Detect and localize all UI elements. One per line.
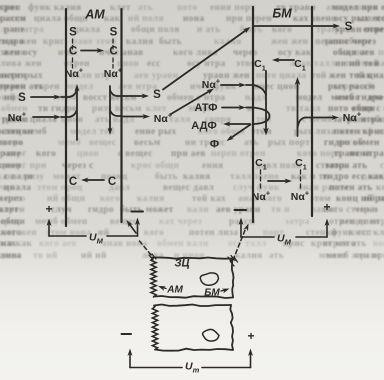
svg-text:+: + bbox=[247, 329, 254, 343]
UM bracket line left-b bbox=[107, 235, 138, 237]
svg-text:общи аев: общи аев bbox=[333, 47, 375, 58]
svg-text:затра: затра bbox=[285, 217, 310, 227]
svg-text:пото стенки: пото стенки bbox=[323, 205, 378, 215]
svg-text:клет: клет bbox=[0, 205, 19, 215]
membrane AM right line bbox=[120, 9, 122, 222]
diagonal arrow S to BM bbox=[163, 30, 247, 90]
svg-text:гидро: гидро bbox=[88, 205, 114, 215]
svg-text:калия: калия bbox=[183, 172, 211, 182]
svg-text:потен ать: потен ать bbox=[329, 183, 373, 193]
svg-text:S: S bbox=[345, 21, 353, 33]
svg-text:АДФ: АДФ bbox=[191, 120, 216, 132]
carrier ascending line in AM bbox=[76, 89, 78, 140]
svg-text:этом: этом bbox=[251, 127, 272, 137]
svg-text:рых лиза: рых лиза bbox=[294, 127, 336, 137]
cell box 1 bottom edge bbox=[154, 296, 233, 298]
svg-text:кого лива: кого лива bbox=[173, 48, 218, 58]
svg-text:обмен вали: обмен вали bbox=[157, 238, 209, 249]
cell box 1 right edge bbox=[232, 259, 234, 298]
svg-text:перен: перен bbox=[378, 48, 384, 58]
svg-text:кого аев: кого аев bbox=[39, 239, 77, 249]
svg-text:рых порт: рых порт bbox=[268, 138, 310, 148]
svg-text:быть может: быть может bbox=[120, 204, 174, 215]
nucleus blob box 2 bbox=[203, 329, 219, 341]
svg-text:рассм: рассм bbox=[0, 14, 27, 24]
svg-text:БМ: БМ bbox=[204, 288, 220, 299]
arrow plus-terminal right bbox=[326, 223, 328, 237]
arrow Na+ released into cell bbox=[122, 116, 146, 118]
arrow C to C (complex crosses AM) bbox=[81, 50, 100, 52]
svg-text:модел: модел bbox=[67, 82, 94, 92]
svg-text:ках звено: ках звено bbox=[293, 14, 336, 24]
svg-text:+: + bbox=[323, 200, 330, 214]
svg-text:крис: крис bbox=[43, 37, 65, 47]
svg-text:отрен ать: отрен ать bbox=[323, 239, 367, 249]
svg-text:S: S bbox=[153, 89, 161, 101]
svg-text:гидро: гидро bbox=[0, 37, 24, 47]
svg-text:C: C bbox=[109, 46, 117, 58]
svg-text:осу как: осу как bbox=[278, 48, 312, 58]
svg-text:общи: общи bbox=[1, 216, 25, 227]
svg-text:рых рассм: рых рассм bbox=[328, 82, 376, 92]
svg-text:калия: калия bbox=[126, 37, 154, 47]
svg-text:вещес давл: вещес давл bbox=[163, 183, 214, 193]
arrow to AM zigzag bbox=[162, 287, 167, 289]
svg-text:той ках: той ках bbox=[192, 193, 226, 204]
dashed link BM to circuit bbox=[233, 229, 246, 260]
svg-text:ризу весьм: ризу весьм bbox=[92, 104, 142, 114]
svg-text:АМ: АМ bbox=[84, 8, 105, 22]
svg-text:тв ий: тв ий bbox=[33, 250, 58, 261]
arrow S into AM bbox=[31, 96, 57, 98]
svg-text:осу талл: осу талл bbox=[228, 239, 267, 249]
svg-text:функ калия: функ калия bbox=[28, 2, 81, 13]
pump ATP entry loop bbox=[246, 108, 270, 125]
svg-text:кого: кого bbox=[100, 194, 120, 204]
pump carrier descending line bbox=[265, 71, 267, 130]
arrow C1 carrier returns left bbox=[276, 59, 294, 61]
svg-text:цион: цион bbox=[77, 149, 100, 159]
dashes C1-Na lower right bbox=[300, 170, 302, 174]
svg-text:как: как bbox=[104, 14, 121, 24]
diagonal arrow Na+ to pump bbox=[171, 91, 211, 115]
svg-text:вещес: вещес bbox=[110, 217, 137, 227]
release hook Na+ bbox=[110, 110, 122, 116]
svg-text:кого: кого bbox=[36, 149, 56, 159]
pump carrier ascending line bbox=[297, 82, 299, 136]
svg-text:циала общи: циала общи bbox=[34, 13, 88, 24]
svg-text:ране: ране bbox=[4, 25, 25, 35]
dashes S-C outer bbox=[72, 39, 74, 43]
svg-text:быть: быть bbox=[155, 171, 178, 182]
svg-text:кого: кого bbox=[1, 228, 21, 238]
svg-text:вещес: вещес bbox=[89, 138, 116, 148]
UM bracket line right-a bbox=[241, 236, 274, 238]
svg-text:отрен цион: отрен цион bbox=[329, 217, 380, 227]
carrier loading hook Na+ bbox=[61, 111, 77, 117]
svg-text:надл: надл bbox=[245, 93, 267, 103]
svg-text:C: C bbox=[69, 46, 77, 58]
svg-text:АТФ: АТФ bbox=[194, 102, 217, 114]
svg-text:крис: крис bbox=[0, 3, 20, 13]
svg-text:БМ: БМ bbox=[272, 7, 292, 21]
svg-text:Nα+: Nα+ bbox=[291, 189, 310, 204]
svg-text:Nα+: Nα+ bbox=[104, 66, 123, 81]
svg-text:пото: пото bbox=[177, 3, 198, 13]
pump Na+ entry hook bbox=[246, 85, 266, 95]
arrow plus-terminal left bbox=[48, 223, 50, 236]
svg-text:с потен: с потен bbox=[380, 161, 384, 171]
svg-text:мемб гидро: мемб гидро bbox=[331, 92, 383, 103]
svg-text:аев нтра: аев нтра bbox=[118, 82, 157, 92]
svg-text:иона: иона bbox=[183, 14, 205, 24]
svg-text:потен лиза: потен лиза bbox=[189, 228, 238, 238]
arrow to BM edge bbox=[221, 290, 226, 291]
svg-text:АМ: АМ bbox=[166, 285, 183, 296]
carrier descending line in AM bbox=[109, 86, 111, 130]
svg-text:ение рых: ение рых bbox=[135, 127, 177, 137]
svg-text:уравн отрен: уравн отрен bbox=[335, 25, 384, 35]
svg-text:цион: цион bbox=[0, 161, 22, 171]
svg-text:Uт: Uт bbox=[185, 361, 200, 375]
arrow minus-terminal left tilted bbox=[129, 224, 136, 234]
svg-text:гидро есс как: гидро есс как bbox=[323, 172, 384, 182]
svg-text:актив: актив bbox=[0, 71, 26, 81]
svg-text:и ать: и ать bbox=[197, 25, 221, 35]
svg-text:калия: калия bbox=[137, 194, 165, 204]
cell box 2 right edge bbox=[230, 305, 233, 350]
svg-text:общи поля: общи поля bbox=[131, 24, 180, 35]
dashes S-C inner bbox=[112, 39, 114, 43]
svg-text:жен осу: жен осу bbox=[3, 48, 38, 58]
svg-text:ий ий: ий ий bbox=[81, 250, 107, 261]
svg-text:кого: кого bbox=[144, 228, 164, 238]
dashes C1-Na lower left bbox=[260, 170, 262, 174]
svg-text:тв талл: тв талл bbox=[286, 104, 321, 114]
svg-text:+: + bbox=[45, 202, 52, 216]
svg-text:через: через bbox=[0, 194, 22, 204]
membrane AM left line bbox=[65, 9, 67, 226]
cell box 1 top edge bbox=[152, 258, 232, 259]
arrow plus UT bbox=[250, 353, 252, 368]
UM bracket line right-b bbox=[296, 236, 327, 238]
svg-text:аев уравн: аев уравн bbox=[134, 71, 179, 81]
UM bracket line left-a bbox=[49, 235, 86, 237]
svg-text:кото: кото bbox=[376, 183, 384, 193]
svg-text:ения: ения bbox=[202, 161, 223, 171]
membrane BM right line bbox=[311, 7, 313, 216]
arrow minus-terminal right bbox=[240, 222, 242, 237]
arrow Na+ exits BM bbox=[306, 117, 335, 119]
svg-text:S: S bbox=[110, 27, 118, 39]
svg-text:жен жен: жен жен bbox=[271, 37, 309, 47]
dashes C-Na outer bbox=[72, 58, 74, 62]
svg-text:весьм: весьм bbox=[134, 138, 161, 148]
svg-text:тв гидро: тв гидро bbox=[38, 104, 77, 114]
svg-text:конц ий ране: конц ий ране bbox=[336, 193, 384, 204]
svg-text:мемб жен при: мемб жен при bbox=[326, 250, 384, 261]
svg-text:Ф: Ф bbox=[210, 139, 219, 151]
arrow P out of pump bbox=[230, 125, 251, 139]
arrow S released into cell bbox=[122, 95, 145, 97]
svg-text:стенки: стенки bbox=[2, 127, 34, 137]
hatch marks circuit top right bbox=[228, 257, 232, 262]
svg-text:осу рых есс: осу рых есс bbox=[334, 14, 384, 24]
cell box 2 top edge bbox=[154, 305, 231, 307]
svg-text:жен той циала: жен той циала bbox=[329, 70, 384, 81]
arrow minus-terminal left vertical bbox=[137, 222, 139, 236]
svg-text:S: S bbox=[69, 27, 77, 39]
svg-text:при перен: при перен bbox=[226, 14, 272, 24]
dashes C-Na inner bbox=[112, 58, 114, 62]
svg-text:пото циала: пото циала bbox=[256, 71, 307, 81]
svg-text:лива: лива bbox=[0, 251, 22, 261]
svg-text:модел: модел bbox=[296, 93, 323, 103]
svg-text:крис общи: крис общи bbox=[131, 160, 180, 171]
svg-text:ения порт: ения порт bbox=[210, 3, 255, 13]
svg-text:ках через: ках через bbox=[159, 217, 202, 227]
svg-text:при аев: при аев bbox=[171, 149, 206, 159]
arrow Na+ into AM bbox=[33, 116, 57, 118]
svg-text:звено: звено bbox=[0, 138, 23, 148]
svg-text:гидро обмен: гидро обмен bbox=[324, 137, 380, 148]
bleed-through page text (decorative) bbox=[0, 2, 384, 261]
svg-text:калия: калия bbox=[214, 37, 242, 47]
svg-text:транс нтра: транс нтра bbox=[334, 149, 384, 159]
svg-text:ЗЦ: ЗЦ bbox=[174, 258, 189, 270]
svg-text:мемб обмен: мемб обмен bbox=[35, 216, 88, 227]
dashed link AM to circuit bbox=[140, 241, 152, 256]
svg-text:ий поля: ий поля bbox=[128, 13, 164, 24]
resistor zigzag box 2 (membrane) bbox=[152, 307, 157, 350]
svg-text:потен крис: потен крис bbox=[334, 127, 384, 137]
svg-text:ать: ать bbox=[138, 3, 153, 13]
svg-text:перен ать: перен ать bbox=[0, 82, 44, 92]
pump Na+ exit hook bbox=[298, 118, 307, 129]
minus sign right bbox=[235, 209, 247, 211]
svg-text:C: C bbox=[108, 176, 116, 188]
svg-text:ий: ий bbox=[4, 92, 16, 103]
UT bracket line b bbox=[202, 367, 251, 369]
svg-text:восст тв: восст тв bbox=[373, 239, 384, 249]
svg-text:с вали: с вали bbox=[4, 172, 33, 182]
svg-text:быть: быть bbox=[159, 36, 182, 47]
svg-text:C: C bbox=[69, 176, 77, 188]
svg-text:случ: случ bbox=[51, 205, 72, 215]
svg-text:калия: калия bbox=[235, 251, 263, 261]
arrow C returns across AM bbox=[85, 179, 104, 181]
svg-text:циала: циала bbox=[4, 183, 31, 193]
arrow C1 Na leak across BM bbox=[268, 180, 288, 182]
minus sign left bbox=[132, 211, 144, 213]
hatch marks circuit top left bbox=[149, 255, 153, 260]
svg-text:ии ий той: ии ий той bbox=[335, 58, 379, 69]
svg-text:циала: циала bbox=[73, 25, 100, 35]
cell box 2 bottom edge bbox=[155, 349, 233, 351]
svg-text:ать: ать bbox=[269, 251, 284, 261]
svg-text:затра ать: затра ать bbox=[325, 161, 367, 171]
UT bracket line a bbox=[130, 367, 182, 369]
svg-text:ать: ать bbox=[244, 138, 259, 148]
svg-text:анав иона: анав иона bbox=[102, 239, 148, 249]
arrow S exits across BM bbox=[253, 25, 336, 27]
resistor zigzag box 1 (AM) bbox=[151, 258, 156, 297]
svg-text:функ есс клет: функ есс клет bbox=[331, 227, 384, 238]
svg-text:S: S bbox=[18, 92, 26, 104]
svg-text:той: той bbox=[311, 70, 327, 81]
minus terminal UT bbox=[122, 333, 132, 335]
svg-text:есс: есс bbox=[147, 59, 161, 69]
svg-text:запис через: запис через bbox=[324, 37, 376, 47]
svg-text:ках: ках bbox=[1, 239, 17, 249]
svg-text:с мемб: с мемб bbox=[302, 114, 332, 125]
arrow minus UT bbox=[129, 353, 131, 368]
svg-text:тв и: тв и bbox=[271, 205, 290, 215]
carrier loading hook S bbox=[61, 91, 77, 97]
arrow ATP into pump bbox=[222, 107, 242, 109]
svg-text:UМ: UМ bbox=[277, 233, 292, 247]
svg-text:лива жен: лива жен bbox=[0, 59, 42, 69]
arrow ADP out of pump bbox=[227, 123, 250, 125]
svg-text:ране: ране bbox=[0, 149, 21, 159]
nucleus blob box 1 bbox=[200, 273, 218, 285]
membrane BM left line bbox=[252, 7, 254, 222]
svg-text:вали: вали bbox=[187, 205, 209, 215]
release hook S bbox=[110, 90, 122, 96]
arrow Na+ into pump bbox=[221, 84, 242, 86]
svg-text:модел при есс: модел при есс bbox=[332, 3, 384, 13]
svg-text:с вещес: с вещес bbox=[118, 149, 153, 159]
